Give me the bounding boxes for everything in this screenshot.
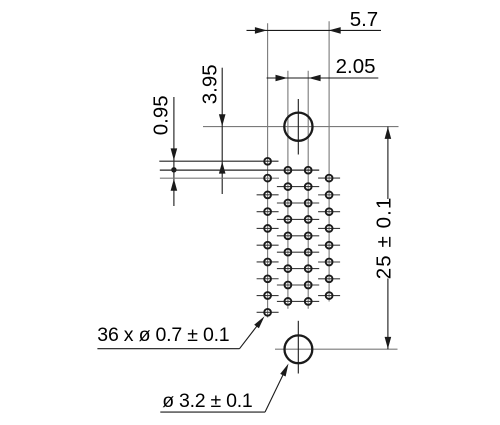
leader line for 36 x dia 0.7 [97,348,239,350]
hole col3 ring [305,282,312,289]
dimension 25 down arrowhead [385,337,392,349]
hole col4 ring [326,259,333,266]
hole col4 ring [326,292,333,299]
bottom mounting hole horizontal centerline [275,348,398,350]
dimension 3.95 up arrowhead [219,162,226,174]
top mounting hole vertical centerline [297,99,299,155]
hole col3 ring [305,216,312,223]
tick col4 row7 [318,278,340,280]
svg-text:2.05: 2.05 [336,55,376,78]
bottom mounting hole vertical centerline [297,321,299,374]
dimension 0.95 line [173,97,175,206]
dimension 0.95 down arrowhead [171,148,178,160]
extension line / hole column 1 centerline [267,23,269,317]
hole col2 ring [285,232,292,239]
dimension 2.05 line [267,77,379,79]
extension line row1 col1 [159,160,278,162]
hole col1 ring [264,309,271,316]
hole col4 ring [326,208,333,215]
hole col2 ring [285,216,292,223]
leader line for dia 3.2 [160,411,265,413]
hole col1 ring [264,242,271,249]
hole col4 ring [326,175,333,182]
dimension 3.95 down arrowhead [219,114,226,126]
svg-text:3.95: 3.95 [198,64,221,104]
hole col1 ring [264,192,271,199]
hole col2 ring [285,265,292,272]
hole col1 ring [264,208,271,215]
hole col1 ring [264,275,271,282]
dimension 2.05 right arrowhead [309,75,321,82]
tick row3 col2-col3 [277,202,319,204]
tick row4 col2-col3 [277,218,319,220]
hole col1 ring [264,158,271,165]
svg-text:ø 3.2 ± 0.1: ø 3.2 ± 0.1 [162,390,252,412]
tick col1 row6 [257,244,279,246]
dimension 0.95 origin dot [171,167,176,172]
tick col4 row4 [318,227,340,229]
hole col3 ring [305,249,312,256]
bottom mounting hole circle [285,335,313,363]
tick col1 row9 [257,295,279,297]
hole col2 ring [285,282,292,289]
hole col2 ring [285,167,292,174]
hole col2 ring [285,200,292,207]
dimension 3.95 line [221,68,223,194]
hole col4 ring [326,192,333,199]
hole col3 ring [305,200,312,207]
tick col1 row5 [257,227,279,229]
extension line / hole column 2 centerline [287,71,289,309]
extension line / hole column 4 centerline [328,21,330,301]
tick col1 row10 [257,311,279,313]
top mounting hole horizontal centerline [203,126,399,128]
hole col3 ring [305,265,312,272]
tick row9 col2-col3 [277,300,319,302]
tick col4 row3 [318,211,340,213]
dimension 25 line upper segment [387,127,389,199]
extension line / hole column 3 centerline [307,71,309,309]
tick col4 row1 [318,177,340,179]
leader 2 arrowhead [280,364,288,377]
dimension 2.05 left arrowhead [276,75,288,82]
tick row7 col2-col3 [277,268,319,270]
svg-text:0.95: 0.95 [150,95,173,135]
dimension 5.7 right arrowhead [329,27,341,34]
hole col3 ring [305,298,312,305]
extension line row2 col1 [160,177,279,179]
tick col4 row6 [318,261,340,263]
tick col1 row3 [257,194,279,196]
tick col1 row8 [257,278,279,280]
tick col4 row2 [318,194,340,196]
hole col3 ring [305,167,312,174]
svg-text:36 x ø 0.7 ± 0.1: 36 x ø 0.7 ± 0.1 [97,324,229,346]
dimension 5.7 left arrowhead [255,27,267,34]
dimension 25 line lower segment [387,279,389,350]
dimension 0.95 up arrowhead [171,179,178,191]
svg-text:5.7: 5.7 [350,8,379,31]
svg-text:25 ± 0.1: 25 ± 0.1 [372,197,395,280]
tick col1 row4 [257,211,279,213]
tick col4 row5 [318,244,340,246]
hole col3 ring [305,232,312,239]
dimension 25 up arrowhead [385,127,392,139]
hole col2 ring [285,298,292,305]
hole col2 ring [285,183,292,190]
dimension 5.7 line [247,29,382,31]
hole col3 ring [305,183,312,190]
leader 1 arrowhead [254,316,264,328]
tick row2 col2-col3 [277,186,319,188]
top mounting hole circle [284,113,312,141]
hole col4 ring [326,242,333,249]
tick col4 row8 [318,295,340,297]
hole col1 ring [264,259,271,266]
hole col1 ring [264,225,271,232]
tick row8 col2-col3 [277,284,319,286]
hole col4 ring [326,275,333,282]
tick row6 col2-col3 [277,251,319,253]
hole col4 ring [326,225,333,232]
tick col1 row7 [257,261,279,263]
hole col1 ring [264,292,271,299]
hole col1 ring [264,175,271,182]
hole col2 ring [285,249,292,256]
extension line row1 col2-col3 [160,169,319,171]
tick row5 col2-col3 [277,235,319,237]
